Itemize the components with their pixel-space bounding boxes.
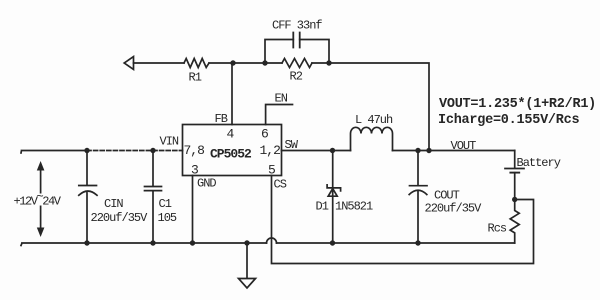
node D1 top [330, 148, 335, 153]
svg-text:5: 5 [268, 163, 275, 178]
svg-text:220uf/35V: 220uf/35V [91, 211, 149, 225]
battery [505, 151, 524, 200]
svg-text:L 47uh: L 47uh [355, 113, 393, 127]
wire node to R2 left node [233, 62, 265, 64]
svg-text:C1: C1 [159, 197, 172, 211]
annotation double arrow +12V~24V [40, 170, 42, 228]
wire CS pin 5 to Rcs top loop [272, 176, 534, 264]
capacitor C1 [145, 151, 162, 244]
wire bottom ground rail left [21, 243, 267, 246]
node ground symbol junction [244, 240, 249, 245]
wire EN pin 6 [266, 105, 293, 125]
svg-text:3: 3 [191, 163, 198, 178]
svg-text:4: 4 [227, 127, 235, 142]
wire bottom rail hop over CS line [267, 238, 277, 243]
node R2 right junction [326, 60, 331, 65]
svg-text:220uf/35V: 220uf/35V [425, 202, 483, 216]
svg-text:1,2: 1,2 [260, 143, 281, 158]
svg-text:D1: D1 [316, 200, 329, 214]
wire FB vertical to pin 4 [231, 63, 233, 125]
svg-text:SW: SW [285, 138, 299, 152]
node battery minus / Rcs top [512, 197, 517, 202]
svg-text:Battery: Battery [517, 156, 561, 170]
svg-text:7,8: 7,8 [184, 143, 205, 158]
node feedback tap [426, 148, 431, 153]
node CIN bottom [84, 240, 89, 245]
op-amp U1 CP5052 body [183, 125, 282, 176]
node FB junction [230, 60, 235, 65]
capacitor CFF branch wiring [265, 40, 329, 64]
node C1 bottom [150, 240, 155, 245]
arrow left-pointing net arrow (FB divider return) [124, 57, 133, 70]
node R2 left junction [262, 60, 267, 65]
svg-text:105: 105 [158, 211, 177, 225]
wire arrow to R1 [134, 62, 185, 64]
svg-text:VOUT=1.235*(1+R2/R1): VOUT=1.235*(1+R2/R1) [439, 97, 596, 112]
capacitor CIN [79, 151, 97, 244]
node COUT bottom [415, 240, 420, 245]
svg-text:CIN: CIN [104, 197, 123, 211]
wire input rail dashed into VIN [87, 150, 183, 152]
inductor L 47uh [351, 127, 393, 150]
svg-text:Icharge=0.155V/Rcs: Icharge=0.155V/Rcs [438, 113, 579, 128]
svg-text:+12V~24V: +12V~24V [14, 190, 62, 209]
net label +12V~24V [13, 190, 62, 209]
capacitor COUT [409, 151, 427, 244]
wire SW rail to inductor [282, 150, 351, 152]
diode D1 1N5821 [332, 151, 334, 244]
svg-text:EN: EN [275, 92, 288, 106]
svg-text:VIN: VIN [160, 135, 179, 149]
svg-text:Rcs: Rcs [488, 222, 507, 236]
svg-text:R1: R1 [189, 71, 202, 85]
node C1 top [150, 148, 155, 153]
svg-text:6: 6 [261, 127, 268, 142]
svg-text:CS: CS [274, 178, 287, 192]
wire input rail solid [21, 151, 87, 154]
svg-text:GND: GND [197, 177, 216, 191]
resistor R1 [184, 59, 209, 68]
svg-text:1N5821: 1N5821 [335, 200, 373, 214]
node CIN top [84, 148, 89, 153]
resistor R2 [282, 59, 312, 68]
resistor Rcs [510, 200, 519, 244]
wire GND pin 3 vertical [192, 176, 194, 244]
node D1 bottom [330, 240, 335, 245]
wire R2 node to VOUT feedback [329, 63, 429, 151]
svg-text:CFF 33nf: CFF 33nf [272, 19, 322, 33]
wire R1 to node [209, 62, 233, 64]
capacitor CFF plates [293, 33, 299, 48]
svg-text:R2: R2 [290, 70, 303, 84]
node COUT top [415, 148, 420, 153]
svg-text:CP5052: CP5052 [210, 147, 252, 162]
svg-text:COUT: COUT [434, 189, 460, 203]
wire bottom ground rail right [277, 242, 515, 244]
svg-text:VOUT: VOUT [451, 139, 477, 153]
wire inductor to battery [393, 150, 515, 152]
svg-text:FB: FB [215, 112, 228, 126]
ground [239, 243, 256, 288]
wire R2 leads [265, 62, 329, 64]
node GND pin bottom [190, 240, 195, 245]
